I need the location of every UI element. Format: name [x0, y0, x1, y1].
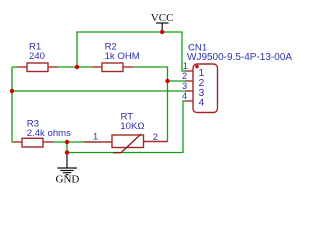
svg-text:GND: GND	[56, 174, 80, 186]
power VCC	[151, 12, 174, 32]
svg-text:VCC: VCC	[151, 12, 174, 24]
pin 3 stub	[185, 90, 193, 92]
ground GND	[56, 153, 80, 186]
svg-text:WJ9500-9.5-4P-13-00A: WJ9500-9.5-4P-13-00A	[187, 52, 292, 63]
svg-text:1: 1	[93, 132, 98, 142]
resistor R3	[13, 119, 71, 148]
wire bottom to CN1 pin4	[67, 101, 185, 153]
wire gnd junction vertical	[66, 142, 68, 153]
junction left rail pin3	[10, 89, 14, 93]
svg-text:2: 2	[153, 132, 158, 142]
resistor R2	[93, 42, 140, 72]
svg-text:3: 3	[182, 81, 187, 91]
svg-text:1k OHM: 1k OHM	[105, 51, 140, 62]
wire R3 right to RT pin1	[54, 141, 84, 143]
svg-text:2.4k ohms: 2.4k ohms	[27, 128, 71, 139]
junction gnd wire	[65, 150, 69, 154]
junction R1-R2 node	[75, 65, 79, 69]
svg-text:2: 2	[182, 71, 187, 81]
pin 2 stub	[185, 80, 193, 82]
wire R1-R2 row	[12, 66, 17, 68]
pin 4 stub	[185, 100, 193, 102]
wire top VCC rail horizontal	[77, 32, 185, 71]
svg-text:240: 240	[29, 51, 45, 62]
wire left rail vertical	[12, 67, 13, 142]
wire R1 right to R2 left	[58, 66, 93, 68]
connector CN1	[182, 43, 292, 113]
connector body	[193, 64, 218, 113]
wire left rail to CN1 pin3	[12, 90, 185, 92]
svg-text:4: 4	[182, 91, 187, 101]
junction node D pin2	[165, 79, 169, 83]
wire R2 right to node D	[133, 67, 168, 142]
wire node D to CN1 pin2	[168, 80, 186, 82]
junction R3-RT node	[65, 140, 69, 144]
svg-text:10KΩ: 10KΩ	[120, 121, 144, 132]
svg-text:4: 4	[199, 97, 205, 109]
pin1 marker dot	[195, 65, 198, 68]
resistor R1	[17, 42, 58, 72]
pin 1 stub	[185, 70, 193, 72]
thermistor RT	[84, 112, 168, 153]
junction VCC rail	[160, 30, 164, 34]
